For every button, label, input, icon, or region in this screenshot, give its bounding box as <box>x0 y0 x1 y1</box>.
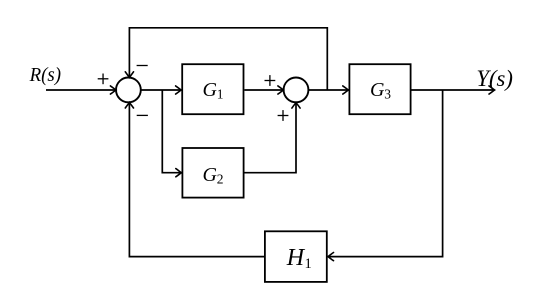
svg-text:1: 1 <box>217 86 224 101</box>
svg-text:1: 1 <box>305 256 312 272</box>
svg-text:G: G <box>203 79 218 101</box>
svg-text:3: 3 <box>384 86 391 101</box>
svg-text:R(s): R(s) <box>29 64 62 86</box>
svg-text:G: G <box>370 79 385 101</box>
svg-text:H: H <box>286 245 306 271</box>
svg-text:2: 2 <box>217 171 224 186</box>
svg-text:G: G <box>203 164 218 186</box>
svg-text:Y(s): Y(s) <box>476 66 513 92</box>
